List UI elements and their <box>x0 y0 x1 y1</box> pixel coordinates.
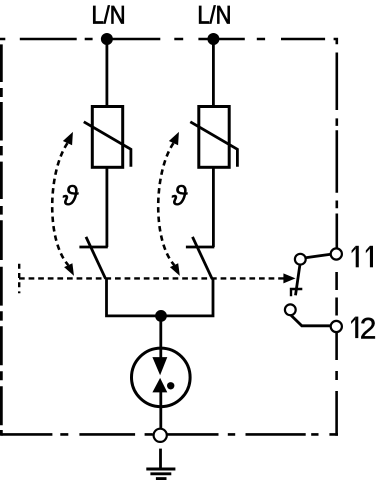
ground bar 1 <box>146 468 175 471</box>
thermal disconnector switch 2: blade <box>193 237 213 279</box>
remote contact: pivot circle <box>295 254 306 265</box>
remote contact: link to terminal 11 <box>306 254 331 258</box>
svg-text:L/N: L/N <box>92 2 126 30</box>
border right lower <box>335 332 338 436</box>
GDT gas-filled dot <box>167 382 174 389</box>
varistor MOV2 diagonal stroke <box>190 122 237 167</box>
wire: varistor MOV1 to disconnector <box>106 167 109 247</box>
GDT lower electrode (up triangle) <box>152 378 167 393</box>
wire: junction down to gas discharge tube <box>159 316 162 358</box>
svg-text:2: 2 <box>360 312 377 345</box>
wire: varistor MOV2 to disconnector <box>212 167 215 247</box>
node L/N right (junction dot) <box>207 33 219 45</box>
wire: right terminal down to varistor MOV2 <box>212 39 215 107</box>
wire: disconnector 2 down and to junction node <box>161 279 213 316</box>
border top (dash-dot frame) <box>0 38 325 41</box>
border right dashed between contacts <box>335 272 338 316</box>
ground bar 3 <box>156 477 167 480</box>
label 12 <box>351 317 358 339</box>
svg-text:L/N: L/N <box>197 2 231 30</box>
terminal 12 circle <box>331 321 342 332</box>
remote contact: blade <box>296 265 300 296</box>
remote contact: latch tick <box>291 289 302 296</box>
thermal disconnector switch 1: contact bar <box>79 246 107 249</box>
border top-right corner piece <box>334 39 337 44</box>
thermal arc left (dashed, double arrow) <box>52 143 68 265</box>
border left <box>0 44 3 435</box>
gas discharge tube GDT circle <box>132 348 191 407</box>
arrowhead bottom of right arc <box>170 263 180 276</box>
ground bar 2 <box>150 472 171 475</box>
mechanical linkage dashed line <box>19 277 284 279</box>
node L/N left (junction dot) <box>101 33 113 45</box>
remote contact: wire lower circle to terminal 12 <box>291 315 331 326</box>
border bottom <box>1 433 338 436</box>
label 11 <box>352 246 373 267</box>
thermal disconnector switch 1: blade <box>86 237 106 279</box>
border right upper <box>335 53 338 249</box>
GDT upper electrode (down triangle) <box>152 357 167 375</box>
thermal disconnector switch 2: contact bar <box>186 246 214 249</box>
svg-text:ϑ: ϑ <box>63 180 80 211</box>
wire into GDT from top and out of GDT bottom to earth terminal <box>159 348 162 429</box>
junction node (main) <box>155 310 167 322</box>
linkage left end tick (dashed vertical) <box>18 264 20 293</box>
varistor MOV2 body <box>199 107 229 168</box>
arrowhead bottom of left arc <box>64 263 74 276</box>
wire: left terminal down to varistor MOV1 <box>106 39 109 107</box>
wire: disconnector 1 down and to junction node <box>107 279 162 316</box>
remote contact: lower circle <box>285 304 296 315</box>
varistor MOV1 diagonal stroke <box>84 122 131 167</box>
svg-text:ϑ: ϑ <box>172 180 189 211</box>
arrowhead top of left arc <box>63 132 73 145</box>
arrowhead top of right arc <box>169 132 179 145</box>
earth terminal (open circle on frame) <box>154 429 167 442</box>
terminal 11 circle <box>331 248 342 259</box>
varistor MOV1 body <box>92 107 122 168</box>
thermal arc right (dashed, double arrow) <box>158 143 174 265</box>
ground stem <box>159 449 162 469</box>
linkage arrowhead at remote contact <box>283 273 295 283</box>
